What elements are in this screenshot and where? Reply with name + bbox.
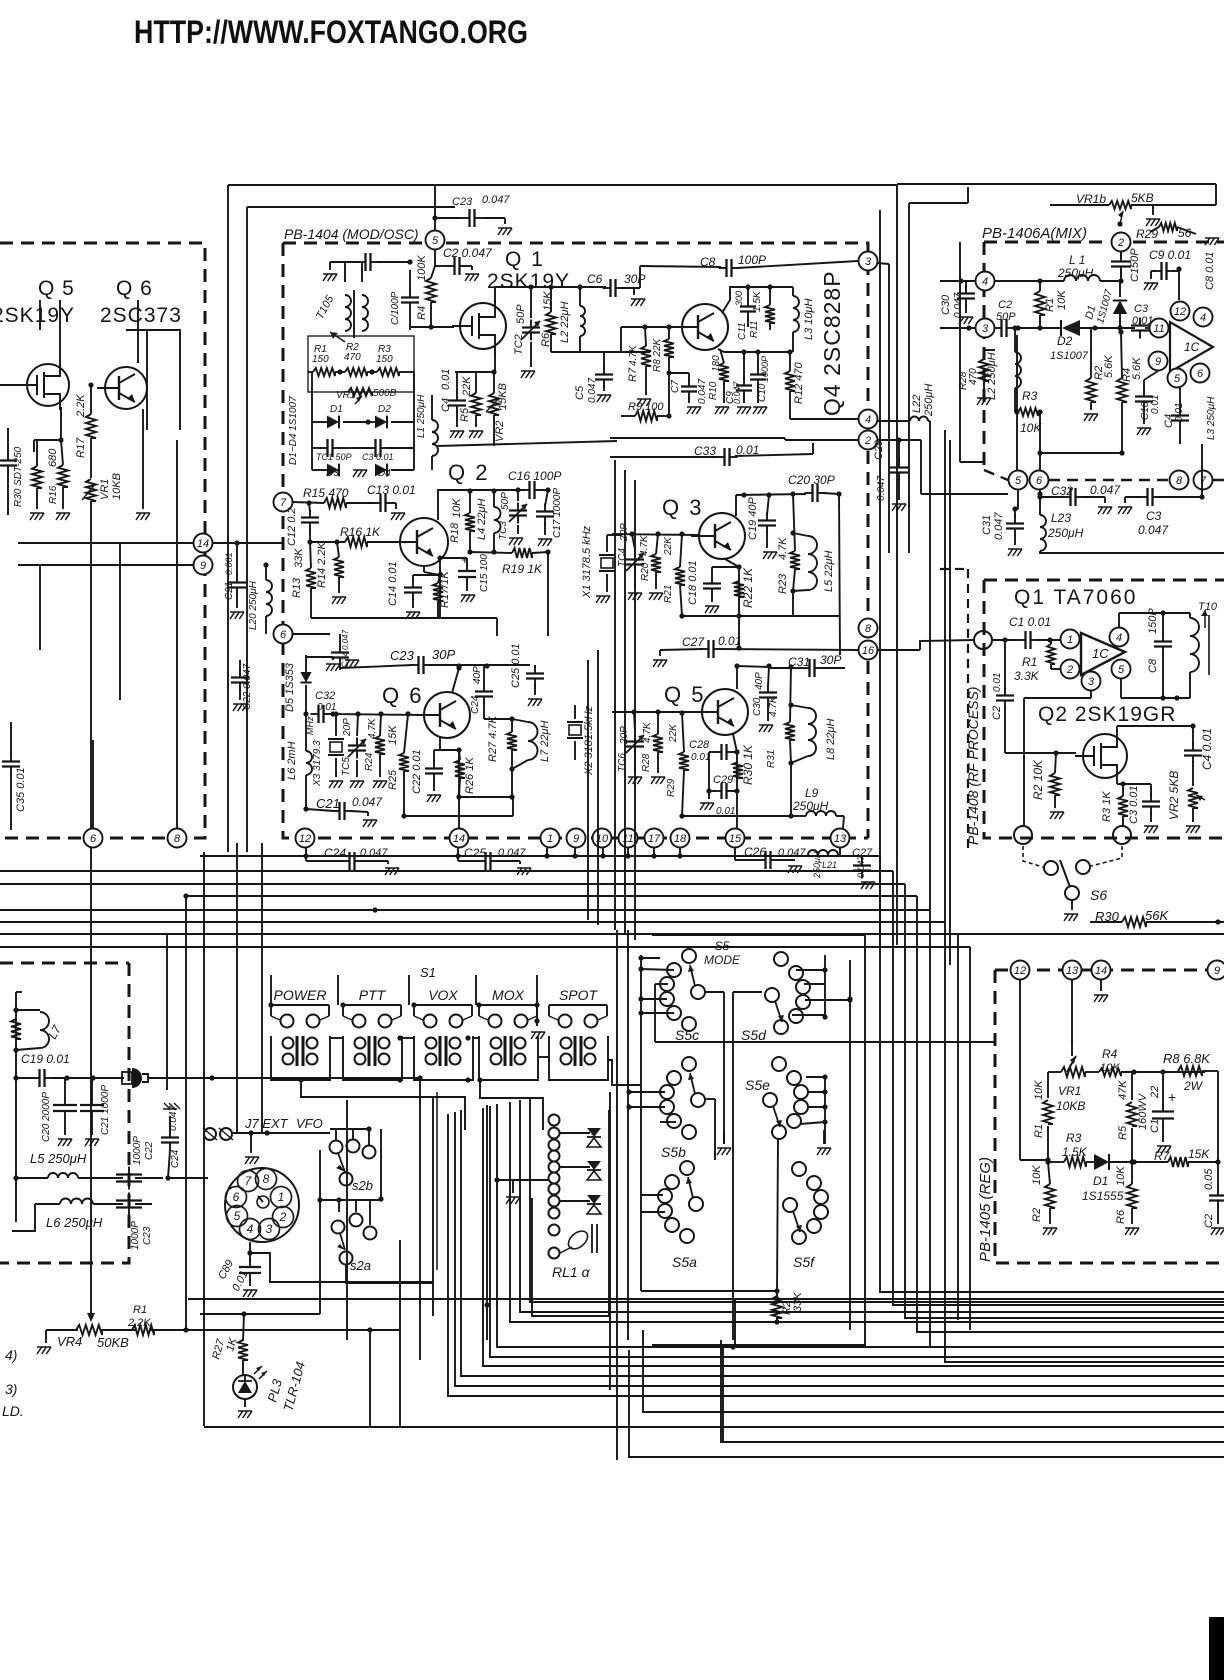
wire Q3 collector (736, 491, 806, 516)
wire Q1 source (437, 349, 650, 446)
label PL3 TLR-104 (264, 1360, 308, 1413)
wire Q2 gate (1056, 752, 1076, 754)
dashed outer RF boundary (940, 569, 968, 852)
wire x960 vertical (960, 242, 984, 462)
switch S1 POWER (271, 987, 330, 1080)
svg-text:470: 470 (968, 368, 979, 385)
dashed box VFO (0, 963, 129, 1263)
capacitor C24 0.047 bottom (306, 846, 399, 875)
svg-text:S1: S1 (420, 965, 436, 980)
capacitor C35 0.01 (2, 722, 27, 830)
svg-text:8: 8 (865, 623, 872, 635)
connector J7 jacks (203, 1128, 233, 1140)
resistor R4 100K (416, 255, 436, 330)
capacitor C1 0.01 rf (1009, 615, 1060, 649)
capacitor C33 0.01 (610, 443, 813, 466)
wire Q6 emitter (136, 409, 150, 520)
capacitor C89 0.01 (216, 1242, 261, 1297)
svg-text:3): 3) (5, 1381, 17, 1397)
label 2SK19Y (487, 270, 570, 293)
wire bottom bus long (188, 1296, 1224, 1301)
svg-text:12: 12 (299, 833, 311, 845)
transformer T10 rf (1190, 601, 1218, 698)
svg-text:VR2: VR2 (494, 421, 506, 442)
switch S2b (330, 1140, 376, 1194)
label 2SC373 (100, 304, 182, 327)
svg-text:4.7K: 4.7K (777, 537, 789, 560)
svg-text:R17/1K: R17/1K (439, 571, 451, 608)
svg-text:C23: C23 (390, 648, 415, 663)
wire route rect B (346, 1100, 348, 1340)
svg-text:R7: R7 (627, 367, 639, 382)
switch S2a (332, 1214, 377, 1274)
svg-text:C5: C5 (574, 385, 586, 400)
transistor Q2 2SK19GR (1075, 730, 1127, 782)
node 4 mix (976, 272, 995, 291)
wire rf input (878, 637, 1020, 650)
svg-text:R11: R11 (749, 320, 760, 338)
node 4b mix (1194, 308, 1213, 327)
svg-text:R4: R4 (416, 306, 428, 320)
dashed mix bottom (984, 470, 1224, 480)
svg-text:L4 22μH: L4 22μH (476, 498, 488, 540)
capacitor C32 0.01 (311, 690, 425, 723)
resistor R28 470 mix (958, 350, 995, 405)
svg-text:Q 3: Q 3 (662, 495, 703, 520)
wire left down a (119, 543, 121, 700)
node 16 mid (859, 641, 878, 660)
svg-text:3: 3 (266, 1222, 273, 1236)
label RL1a (552, 1264, 591, 1280)
svg-text:C25: C25 (464, 846, 486, 860)
node 7 mix2 (1194, 471, 1213, 490)
capacitor C10 0.01 mix (1135, 371, 1161, 435)
wire outer box PB-1404 (228, 185, 897, 855)
transistor Q6 mid (416, 692, 470, 738)
resistor R5 47K reg (1117, 1072, 1137, 1162)
svg-text:2: 2 (864, 435, 871, 447)
svg-text:C21 1000P: C21 1000P (100, 1085, 111, 1135)
ground S5e (817, 1130, 831, 1155)
capacitor C32 0.047 mix (1037, 483, 1121, 514)
wire route S5 area (652, 935, 865, 1345)
capacitor C8 100P (640, 253, 858, 277)
svg-text:40P: 40P (754, 672, 765, 690)
svg-text:13: 13 (834, 833, 847, 845)
inductor L22 250uH (877, 384, 935, 421)
wire bus v left (167, 843, 262, 1133)
wire Q6 emitter mid (440, 737, 462, 828)
node 5 PB-1404 (426, 231, 445, 250)
svg-text:11: 11 (622, 833, 633, 845)
diode DA1 pair (560, 1128, 601, 1147)
label PB-1408 (RF PROCESS) (965, 687, 981, 845)
svg-text:0.047: 0.047 (1090, 483, 1121, 497)
svg-text:14: 14 (453, 833, 465, 845)
wire pin4 T10 (1119, 610, 1190, 627)
svg-text:10K: 10K (1020, 421, 1042, 435)
capacitor C20 2000P (41, 1078, 77, 1146)
svg-text:PTT: PTT (359, 987, 387, 1003)
inductor L1 250uH (416, 394, 438, 470)
node 11 PB-1404 bottom (619, 829, 638, 848)
inductor L9 250uH (791, 786, 844, 828)
wire Q5 drain up (40, 300, 60, 360)
wire bus h3 (0, 883, 905, 885)
svg-text:SPOT: SPOT (559, 987, 599, 1003)
svg-text:PB-1406A(MIX): PB-1406A(MIX) (982, 225, 1087, 242)
wire S1 feeds (268, 975, 539, 1008)
svg-text:0.01: 0.01 (691, 752, 710, 763)
svg-text:C22: C22 (144, 1141, 155, 1160)
wire S5c stubs (638, 955, 674, 1042)
wire bottom bus 13 (629, 1350, 1224, 1457)
svg-text:C35 0.01: C35 0.01 (15, 767, 27, 812)
svg-text:2W: 2W (1183, 1079, 1204, 1093)
wire stair g (461, 1110, 1224, 1376)
svg-text:10K: 10K (1033, 1080, 1045, 1100)
svg-text:5.6K: 5.6K (1103, 355, 1115, 378)
svg-text:R31: R31 (766, 750, 777, 768)
svg-text:10K: 10K (1031, 1165, 1043, 1185)
potentiometer VR2 75KB (486, 369, 509, 446)
node 12 PB-1404 bottom (296, 829, 315, 848)
svg-text:C31: C31 (981, 515, 993, 535)
label S5 MODE (704, 939, 741, 967)
svg-text:C9 0.01: C9 0.01 (1149, 248, 1191, 262)
svg-text:Q1 TA7060: Q1 TA7060 (1014, 586, 1137, 609)
svg-text:R28: R28 (641, 753, 652, 772)
capacitor C21 0.047 q6 (306, 795, 383, 827)
capacitor C4 0.01 mix2 (1163, 388, 1189, 444)
svg-text:8: 8 (174, 833, 181, 845)
wire S5a stubs (641, 1195, 665, 1212)
svg-text:4.7K: 4.7K (642, 721, 653, 743)
wire Q5 source col (34, 407, 64, 443)
svg-text:0.047: 0.047 (587, 378, 598, 403)
ground S6 (1064, 900, 1078, 921)
wire Q4 collector net (722, 287, 793, 313)
capacitor C16 100P (508, 469, 561, 499)
svg-text:PB-1404 (MOD/OSC): PB-1404 (MOD/OSC) (284, 226, 419, 242)
svg-text:0.01: 0.01 (992, 673, 1003, 692)
svg-text:14: 14 (1095, 965, 1107, 977)
capacitor C150P mix (1111, 248, 1141, 284)
connector tube socket J7 (225, 1168, 299, 1242)
node 9 mix (1149, 352, 1168, 371)
wire bottom bus 12 (721, 1340, 1224, 1442)
wire route rect F (436, 1092, 438, 1270)
capacitor C3 0.01 rf (1123, 784, 1160, 833)
capacitor C10 1000P (750, 352, 770, 414)
wire S5e stubs (800, 1074, 828, 1144)
wire Q3 base rail (612, 531, 699, 536)
IC TA7060 triangle (1081, 633, 1125, 675)
svg-text:C8 0.01: C8 0.01 (1204, 251, 1216, 290)
svg-text:0.047: 0.047 (876, 476, 887, 501)
wire S5b stubs (626, 1089, 676, 1122)
svg-text:0.047: 0.047 (778, 847, 806, 859)
wire osc left rail (312, 372, 414, 470)
label 2SK19Y left (0, 304, 75, 327)
resistor R14 2.2K (316, 541, 346, 604)
wire S5 pivots (705, 992, 762, 1340)
potentiometer VR1b 5KB (1050, 191, 1216, 227)
svg-text:10K: 10K (1115, 1166, 1127, 1186)
wire mix mid rail (1037, 412, 1124, 494)
capacitor C8 0.01 mix (1204, 251, 1216, 290)
svg-text:250μH: 250μH (923, 384, 935, 417)
svg-text:S5a: S5a (672, 1254, 697, 1270)
node 6 mix (1191, 364, 1210, 383)
svg-text:22K: 22K (461, 376, 473, 397)
svg-text:5: 5 (234, 1209, 241, 1223)
inductor L1 250uH mix (1037, 253, 1121, 284)
svg-text:2SC373: 2SC373 (100, 304, 182, 327)
svg-text:R19 1K: R19 1K (502, 562, 543, 576)
svg-text:680: 680 (47, 448, 59, 467)
svg-text:0.01: 0.01 (718, 634, 741, 648)
svg-text:56K: 56K (1145, 908, 1169, 923)
switch S5c (660, 949, 705, 1043)
svg-text:10K: 10K (451, 498, 463, 518)
svg-text:R30 SDT-250: R30 SDT-250 (13, 446, 24, 507)
svg-text:C23: C23 (142, 1226, 153, 1245)
svg-text:R9 100: R9 100 (628, 401, 664, 413)
svg-text:VR4: VR4 (57, 1334, 82, 1349)
diode D1 1S1007 mix (1083, 281, 1127, 331)
resistor R12 470 (785, 349, 805, 413)
svg-text:R20: R20 (640, 562, 651, 581)
capacitor C21 1000P vfo (80, 1078, 111, 1146)
svg-text:C24: C24 (470, 695, 481, 714)
capacitor C19 40P (747, 495, 777, 559)
capacitor C4 0.01 (440, 369, 466, 438)
crystal X2 3181.5kHz (567, 705, 595, 776)
svg-text:PB-1405 (REG): PB-1405 (REG) (977, 1157, 994, 1262)
svg-text:C19 40P: C19 40P (747, 497, 759, 540)
svg-text:22K: 22K (668, 723, 679, 743)
wire bus 14 (18, 540, 240, 545)
svg-text:R3 1K: R3 1K (1101, 791, 1113, 822)
resistor R24 4.7K (364, 714, 387, 788)
svg-text:16: 16 (862, 645, 875, 657)
wire osc loop (345, 262, 362, 282)
switch S5d (741, 952, 810, 1043)
wire Q5 base rail (612, 709, 702, 715)
inductor L5 22uH q3 (793, 533, 835, 616)
svg-text:L1 250μH: L1 250μH (416, 394, 427, 438)
svg-text:L3 10μH: L3 10μH (803, 298, 815, 340)
svg-text:s2b: s2b (352, 1178, 373, 1193)
svg-text:15K: 15K (542, 291, 554, 311)
resistor R15 470 (293, 486, 375, 508)
node 2 PB-1404 (859, 431, 878, 450)
svg-text:Q 5: Q 5 (664, 682, 705, 707)
svg-text:X2 3181.5kHz: X2 3181.5kHz (583, 705, 595, 776)
svg-text:9: 9 (1155, 356, 1161, 368)
label Q6 (116, 277, 153, 300)
svg-text:C30: C30 (940, 294, 952, 315)
svg-text:R17: R17 (75, 437, 87, 458)
svg-text:50P: 50P (515, 304, 527, 324)
capacitor C 100P osc (390, 270, 419, 330)
svg-text:33K: 33K (792, 1292, 804, 1312)
capacitor C3 0.01 osc (352, 439, 414, 462)
svg-text:100P: 100P (738, 253, 766, 267)
svg-text:C33: C33 (694, 444, 716, 458)
wire left down b (39, 565, 41, 650)
svg-text:D2: D2 (378, 404, 391, 415)
svg-text:15K: 15K (387, 725, 399, 745)
resistor R17 2.2K (75, 382, 96, 478)
svg-text:C25 0.01: C25 0.01 (510, 643, 522, 688)
svg-text:2: 2 (1066, 664, 1073, 676)
svg-text:L2 22μH: L2 22μH (559, 301, 571, 343)
capacitor C22 0.047 (231, 660, 253, 711)
node 2 mix (1112, 233, 1131, 252)
diode D1 1S1555 (1082, 1154, 1137, 1203)
svg-text:S5: S5 (715, 939, 730, 953)
svg-text:1000P: 1000P (130, 1221, 141, 1250)
wire bottom bus 11 (204, 1426, 1224, 1428)
capacitor C6 30P (587, 266, 645, 306)
wire left col x147 (146, 330, 148, 430)
wire bus v turns (880, 856, 970, 1330)
wire route rect E (484, 1105, 489, 1340)
svg-text:50KB: 50KB (97, 1335, 129, 1350)
capacitor osc top (323, 253, 413, 281)
capacitor C9q 0.047 (725, 352, 752, 414)
svg-text:L3 250μH: L3 250μH (1206, 396, 1217, 440)
svg-text:C22 0.01: C22 0.01 (411, 749, 423, 794)
svg-text:Q 5: Q 5 (38, 277, 75, 300)
svg-text:7: 7 (280, 497, 287, 509)
svg-text:4: 4 (982, 276, 988, 288)
wire Q2 drain (1117, 723, 1196, 730)
resistor R2 5.6K mix (1084, 328, 1115, 421)
svg-text:6: 6 (280, 629, 287, 641)
wire bottom bus 5 (930, 1300, 1224, 1347)
capacitor C5 0.047 (574, 352, 613, 403)
potentiometer VR1 10KB left (82, 473, 123, 828)
trimmer TC1 50P (312, 439, 352, 462)
svg-text:5: 5 (1118, 664, 1125, 676)
svg-text:R3: R3 (1022, 389, 1038, 403)
wire route rect A (203, 852, 205, 1426)
wire Q5 collector (734, 663, 793, 689)
capacitor C23 0.047 top (432, 194, 512, 235)
svg-text:VR1: VR1 (1058, 1084, 1081, 1098)
svg-text:150P: 150P (1147, 608, 1159, 634)
wire node3 right (877, 263, 889, 553)
node 4 rf (1110, 628, 1129, 647)
svg-text:C2: C2 (1203, 1214, 1215, 1228)
wire stair e (490, 1106, 1224, 1357)
dashed box PB-1405 (995, 970, 1224, 1263)
svg-text:J7 EXT: J7 EXT (244, 1116, 289, 1131)
ground J7 (245, 1133, 259, 1164)
resistor R1 150 (312, 344, 335, 376)
wire ctrl h (46, 1240, 400, 1427)
svg-text:47K: 47K (1117, 1080, 1129, 1100)
wire stair b (520, 1100, 1224, 1312)
svg-text:15: 15 (729, 833, 742, 845)
svg-text:X1 3178.5 kHz: X1 3178.5 kHz (581, 525, 593, 599)
svg-text:500B: 500B (373, 388, 397, 399)
svg-text:0.047: 0.047 (482, 194, 510, 206)
capacitor C7 0.047 (669, 373, 708, 414)
wire inner box PB-1404 (247, 207, 880, 852)
svg-text:C17 1000P: C17 1000P (552, 488, 563, 538)
node 8 mid (859, 619, 878, 638)
wire J7 (232, 1130, 330, 1135)
node 9 reg (1208, 961, 1224, 980)
capacitor C29 q5 (700, 774, 740, 817)
svg-text:Q 6: Q 6 (116, 277, 153, 300)
svg-text:L6 250μH: L6 250μH (46, 1215, 103, 1230)
svg-text:Q4 2SC828P: Q4 2SC828P (819, 270, 845, 416)
wire Q3 bottom rail (682, 615, 840, 617)
svg-text:11: 11 (1153, 323, 1164, 335)
resistor R8 6.8K reg (1163, 1051, 1218, 1162)
wire VFO left rail (13, 992, 22, 1222)
node 13 reg (1063, 961, 1082, 980)
svg-text:C32: C32 (315, 690, 335, 702)
resistor R6 10K reg (1115, 1159, 1139, 1235)
capacitor C18 0.01 (687, 560, 739, 613)
svg-text:9: 9 (573, 833, 579, 845)
wire Q2 collector rail (438, 487, 551, 520)
diode D3 (312, 464, 367, 479)
svg-text:0.047: 0.047 (1138, 523, 1169, 537)
node out1 rf (1014, 826, 1032, 844)
svg-text:R16 1K: R16 1K (340, 525, 381, 539)
junction dots bus (303, 853, 460, 912)
resistor R29 56 mix (1136, 223, 1219, 245)
svg-text:4.7K: 4.7K (768, 695, 779, 717)
label Q5 mid (664, 682, 705, 707)
svg-text:8: 8 (1176, 475, 1183, 487)
wire route rect D (419, 1078, 421, 1360)
svg-text:40P: 40P (472, 666, 483, 684)
wire RL1a frame (532, 1110, 609, 1316)
resistor R31 4.7K (766, 667, 795, 768)
label Q5 (38, 277, 75, 300)
capacitor C22 1000P (116, 1136, 171, 1190)
capacitor C21 0.001 (224, 543, 246, 619)
wire S5 inner (847, 960, 852, 1330)
label Q2 (448, 460, 489, 485)
wire right verticals (880, 421, 950, 1310)
svg-text:R24: R24 (364, 752, 375, 771)
ground VR1b (1146, 205, 1160, 226)
resistor R1 3.3K rf (1014, 640, 1060, 683)
svg-text:R13: R13 (291, 577, 303, 598)
svg-text:0.047: 0.047 (732, 380, 742, 404)
svg-text:C6: C6 (587, 272, 603, 286)
svg-text:1: 1 (1067, 634, 1073, 646)
svg-text:R6: R6 (1115, 1209, 1127, 1224)
svg-text:C29: C29 (713, 774, 733, 786)
resistor R30 1K (733, 744, 755, 785)
svg-text:Q 6: Q 6 (382, 683, 423, 708)
resistor R7 15K reg (1134, 1147, 1221, 1167)
svg-text:C7: C7 (670, 380, 681, 393)
svg-text:RL1 α: RL1 α (552, 1264, 591, 1280)
svg-text:C27: C27 (682, 635, 705, 649)
svg-text:LD.: LD. (2, 1403, 24, 1419)
